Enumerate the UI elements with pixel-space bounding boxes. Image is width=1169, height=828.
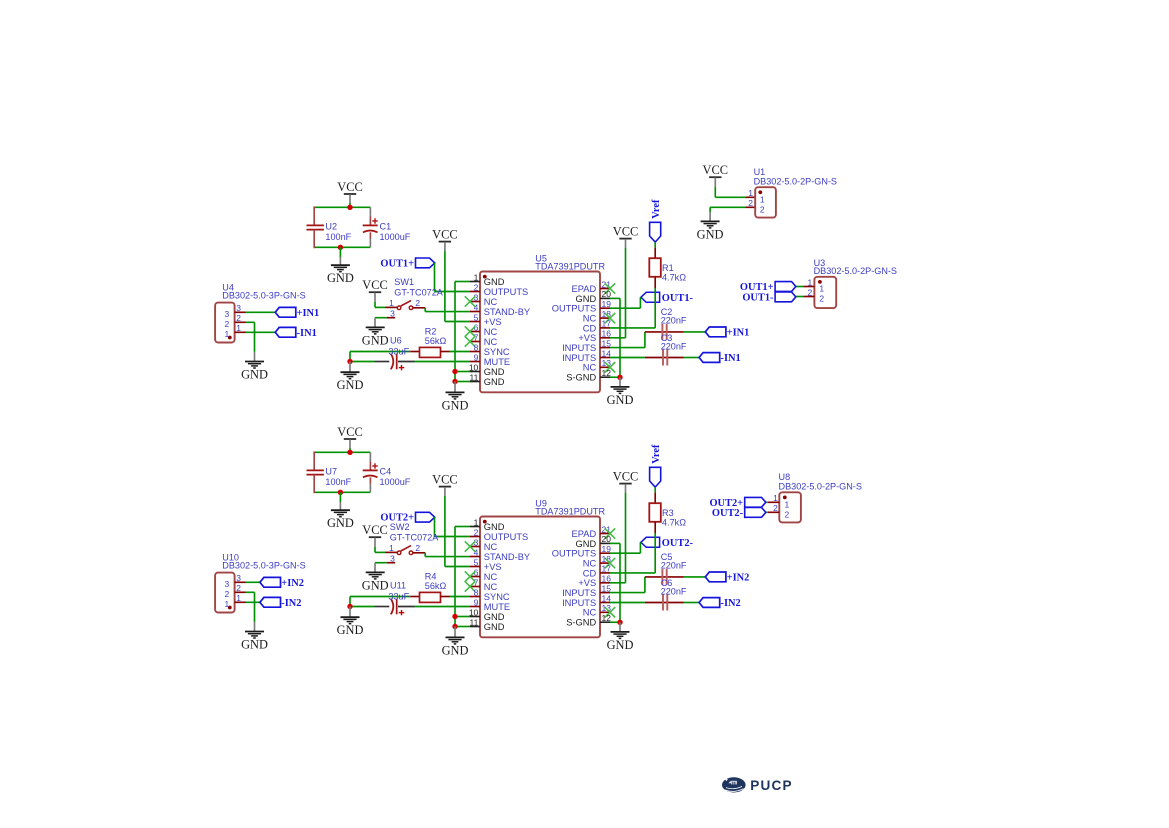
svg-text:OUTPUTS: OUTPUTS [552,304,596,314]
svg-text:3: 3 [236,303,241,313]
svg-text:GND: GND [607,638,634,652]
svg-text:12: 12 [602,613,612,623]
svg-text:+IN1: +IN1 [727,328,750,339]
svg-text:U6: U6 [390,336,402,346]
svg-text:VCC: VCC [432,227,457,241]
svg-text:DB302-5.0-3P-GN-S: DB302-5.0-3P-GN-S [222,290,305,300]
svg-text:VCC: VCC [337,180,362,194]
svg-text:5: 5 [474,557,479,567]
svg-text:U7: U7 [325,467,337,477]
svg-text:OUTPUTS: OUTPUTS [484,532,528,542]
svg-text:+VS: +VS [578,333,596,343]
svg-text:+VS: +VS [484,317,502,327]
svg-text:GND: GND [442,643,469,657]
svg-text:3: 3 [225,579,230,589]
svg-text:2: 2 [474,527,479,537]
svg-text:1: 1 [389,543,394,553]
svg-text:15: 15 [602,338,612,348]
svg-text:GND: GND [327,516,354,530]
svg-text:INPUTS: INPUTS [562,343,596,353]
svg-text:DB302-5.0-3P-GN-S: DB302-5.0-3P-GN-S [222,560,305,570]
svg-text:2: 2 [748,198,753,208]
svg-text:+IN2: +IN2 [727,573,750,584]
svg-text:19: 19 [602,544,612,554]
svg-text:MUTE: MUTE [484,357,510,367]
svg-text:2: 2 [225,589,230,599]
svg-text:MUTE: MUTE [484,602,510,612]
svg-text:100nF: 100nF [325,477,351,487]
svg-text:NC: NC [484,297,498,307]
svg-text:2: 2 [785,509,790,519]
svg-text:NC: NC [484,572,498,582]
svg-text:OUT1-: OUT1- [662,293,694,304]
svg-text:1: 1 [474,272,479,282]
svg-text:GND: GND [327,271,354,285]
svg-text:12: 12 [602,368,612,378]
svg-text:2: 2 [819,294,824,304]
svg-text:1: 1 [760,194,765,204]
svg-text:33uF: 33uF [388,592,409,602]
svg-text:1: 1 [236,323,241,333]
svg-text:8: 8 [474,587,479,597]
svg-text:17: 17 [602,564,612,574]
svg-text:INPUTS: INPUTS [562,353,596,363]
svg-text:VCC: VCC [362,278,387,292]
svg-text:Vref: Vref [651,444,662,464]
svg-text:1000uF: 1000uF [380,232,411,242]
svg-text:GND: GND [484,367,505,377]
svg-text:INPUTS: INPUTS [562,598,596,608]
svg-text:GND: GND [442,398,469,412]
svg-text:VCC: VCC [432,472,457,486]
svg-text:9: 9 [474,352,479,362]
svg-text:+VS: +VS [578,578,596,588]
svg-text:EPAD: EPAD [572,284,597,294]
svg-text:GND: GND [484,612,505,622]
svg-text:C1: C1 [380,222,392,232]
svg-text:4: 4 [474,302,479,312]
svg-text:DB302-5.0-2P-GN-S: DB302-5.0-2P-GN-S [814,266,897,276]
svg-text:S-GND: S-GND [566,373,596,383]
svg-text:Vref: Vref [651,199,662,219]
svg-text:10: 10 [469,607,479,617]
svg-text:3: 3 [225,309,230,319]
svg-text:-IN1: -IN1 [297,328,317,339]
svg-text:GND: GND [337,623,364,637]
svg-text:100nF: 100nF [325,232,351,242]
svg-text:OUTPUTS: OUTPUTS [552,549,596,559]
svg-text:10: 10 [469,362,479,372]
svg-text:56kΩ: 56kΩ [425,581,447,591]
svg-text:1: 1 [748,188,753,198]
svg-text:20: 20 [602,534,612,544]
svg-text:14: 14 [602,593,612,603]
svg-text:GND: GND [241,638,268,652]
svg-text:1000uF: 1000uF [380,477,411,487]
svg-text:GND: GND [576,294,597,304]
svg-text:GND: GND [362,578,389,592]
svg-text:OUTPUTS: OUTPUTS [484,287,528,297]
svg-text:2: 2 [236,313,241,323]
svg-text:20: 20 [602,289,612,299]
svg-text:VCC: VCC [613,224,638,238]
svg-text:-IN1: -IN1 [721,353,741,364]
svg-text:GND: GND [484,622,505,632]
svg-text:33uF: 33uF [388,347,409,357]
svg-text:GND: GND [484,377,505,387]
svg-text:NC: NC [484,542,498,552]
svg-text:1: 1 [225,599,230,609]
svg-text:VCC: VCC [703,163,728,177]
svg-text:1: 1 [225,329,230,339]
svg-text:14: 14 [602,348,612,358]
svg-text:TDA7391PDUTR: TDA7391PDUTR [535,506,605,516]
svg-text:15: 15 [602,583,612,593]
svg-text:CD: CD [583,568,597,578]
svg-text:SYNC: SYNC [484,347,510,357]
svg-text:2: 2 [760,205,765,215]
svg-text:1: 1 [236,593,241,603]
svg-text:-IN2: -IN2 [721,598,741,609]
svg-text:OUT1+: OUT1+ [380,258,414,269]
svg-text:1: 1 [785,499,790,509]
svg-text:2: 2 [474,282,479,292]
svg-text:OUT1-: OUT1- [742,293,774,304]
svg-text:NC: NC [484,582,498,592]
svg-text:DB302-5.0-2P-GN-S: DB302-5.0-2P-GN-S [754,177,837,187]
svg-text:1: 1 [389,298,394,308]
svg-text:220nF: 220nF [661,586,687,596]
svg-text:19: 19 [602,299,612,309]
svg-text:DB302-5.0-2P-GN-S: DB302-5.0-2P-GN-S [779,481,862,491]
svg-text:GT-TC072A: GT-TC072A [390,532,439,542]
svg-text:+IN2: +IN2 [281,578,304,589]
svg-text:C4: C4 [380,467,392,477]
svg-text:+IN1: +IN1 [297,308,320,319]
svg-text:GND: GND [484,522,505,532]
svg-text:GND: GND [576,539,597,549]
svg-text:PUCP: PUCP [750,778,793,793]
svg-text:1: 1 [474,517,479,527]
svg-text:S-GND: S-GND [566,618,596,628]
svg-text:U11: U11 [390,581,406,591]
svg-text:NC: NC [484,327,498,337]
svg-text:OUT1+: OUT1+ [740,282,774,293]
svg-text:1: 1 [819,284,824,294]
svg-text:220nF: 220nF [661,316,687,326]
svg-text:GT-TC072A: GT-TC072A [394,287,443,297]
svg-text:GND: GND [362,333,389,347]
svg-text:4.7kΩ: 4.7kΩ [662,517,686,527]
svg-text:16: 16 [602,574,612,584]
svg-text:+VS: +VS [484,562,502,572]
svg-text:NC: NC [583,363,597,373]
svg-text:NC: NC [484,337,498,347]
svg-text:17: 17 [602,319,612,329]
svg-text:TDA7391PDUTR: TDA7391PDUTR [535,261,605,271]
svg-text:5: 5 [474,312,479,322]
svg-text:VCC: VCC [337,425,362,439]
svg-text:U2: U2 [325,222,337,232]
svg-text:OUT2-: OUT2- [662,538,694,549]
svg-text:2: 2 [415,298,420,308]
svg-text:GND: GND [241,368,268,382]
svg-text:STAND-BY: STAND-BY [484,307,530,317]
svg-text:8: 8 [474,342,479,352]
svg-text:2: 2 [415,543,420,553]
svg-text:EPAD: EPAD [572,529,597,539]
svg-text:220nF: 220nF [661,341,687,351]
svg-text:2: 2 [225,319,230,329]
svg-text:OUT2-: OUT2- [712,508,744,519]
svg-text:R2: R2 [425,326,437,336]
svg-text:220nF: 220nF [661,561,687,571]
svg-text:GND: GND [484,277,505,287]
svg-text:NC: NC [583,608,597,618]
svg-text:2: 2 [236,583,241,593]
svg-text:VCC: VCC [613,469,638,483]
svg-text:56kΩ: 56kΩ [425,336,447,346]
svg-text:CD: CD [583,323,597,333]
svg-text:16: 16 [602,329,612,339]
svg-text:3: 3 [236,573,241,583]
svg-text:R4: R4 [425,571,437,581]
svg-text:NC: NC [583,559,597,569]
svg-text:-IN2: -IN2 [281,598,301,609]
svg-text:11: 11 [469,617,478,627]
svg-text:SW2: SW2 [390,522,410,532]
svg-text:GND: GND [337,378,364,392]
svg-text:STAND-BY: STAND-BY [484,552,530,562]
svg-text:GND: GND [607,393,634,407]
svg-text:SYNC: SYNC [484,592,510,602]
svg-text:4.7kΩ: 4.7kΩ [662,272,686,282]
svg-text:11: 11 [469,372,478,382]
svg-text:4: 4 [474,547,479,557]
svg-text:VCC: VCC [362,523,387,537]
svg-text:SW1: SW1 [394,277,414,287]
svg-text:NC: NC [583,314,597,324]
svg-text:INPUTS: INPUTS [562,588,596,598]
svg-text:GND: GND [697,227,724,241]
svg-text:9: 9 [474,597,479,607]
